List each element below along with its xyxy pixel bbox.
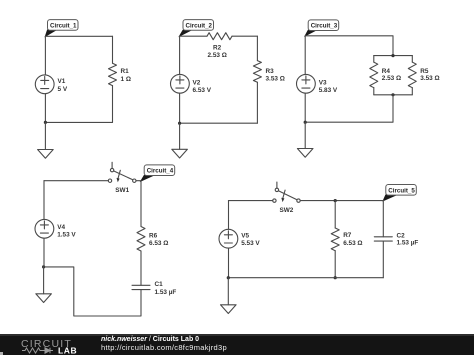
svg-text:SW2: SW2 [280, 207, 294, 214]
svg-text:5.83 V: 5.83 V [319, 87, 338, 94]
svg-text:nick.nweisser / Circuits Lab 0: nick.nweisser / Circuits Lab 0 [101, 336, 199, 343]
node label Circuit_4 [141, 165, 175, 181]
svg-text:3.53 Ω: 3.53 Ω [266, 76, 285, 83]
node label Circuit_3 [305, 20, 339, 36]
wire right upper C1 [112, 36, 114, 63]
svg-text:C2: C2 [397, 233, 406, 240]
junction R7 bottom [334, 276, 337, 279]
wire R7 bottom stub [334, 251, 336, 278]
wire top-left C5 [229, 200, 273, 202]
logo resistor squiggle [22, 348, 42, 353]
svg-text:1 Ω: 1 Ω [121, 76, 131, 83]
wire left upper C1 [44, 36, 46, 75]
svg-text:6.53 Ω: 6.53 Ω [149, 240, 168, 247]
svg-text:5 V: 5 V [58, 86, 68, 93]
node label Circuit_1 [45, 20, 78, 37]
wire parallel bottom bar [374, 94, 413, 96]
svg-text:2.53 Ω: 2.53 Ω [208, 52, 227, 59]
capacitor C2 [374, 233, 418, 247]
svg-text:1.53 V: 1.53 V [57, 232, 76, 239]
wire left lower C1 [44, 94, 46, 123]
svg-text:1.53 µF: 1.53 µF [155, 289, 177, 296]
wire right upper C2 [256, 36, 258, 60]
wire R6 to C1 [140, 251, 142, 285]
svg-text:R4: R4 [382, 68, 391, 75]
svg-text:3.53 Ω: 3.53 Ω [420, 75, 439, 82]
svg-text:Circuit_4: Circuit_4 [147, 168, 174, 175]
wire top C3 [305, 36, 393, 56]
svg-text:V4: V4 [57, 224, 65, 231]
wire bottom C2 [180, 122, 258, 124]
switch SW1 [108, 162, 136, 194]
wire left upper C2 [179, 36, 181, 74]
junction R7 top [334, 199, 337, 202]
ground C2 [172, 149, 188, 158]
wire R7 top stub [334, 201, 336, 228]
wire right lower C1 [112, 86, 114, 123]
svg-text:R1: R1 [121, 68, 130, 75]
wire ground stem C4 [43, 267, 45, 294]
wire top-right C4 [136, 180, 141, 182]
svg-text:http://circuitlab.com/c8fc9mak: http://circuitlab.com/c8fc9makjrd3p [101, 343, 227, 352]
junction parallel bottom [391, 93, 394, 96]
logo diode [42, 348, 53, 353]
wire left upper C4 [43, 181, 45, 220]
resistor R7 [331, 228, 362, 251]
svg-text:R5: R5 [420, 68, 429, 75]
wire right upper C5 [382, 201, 384, 237]
wire top-left C4 [44, 180, 108, 182]
wire right lower C2 [256, 82, 258, 123]
wire left lower C3 [304, 93, 306, 122]
wire R4 top stub [373, 56, 375, 63]
wire left lower C5 [228, 248, 230, 278]
wire ground stem C2 [179, 123, 181, 149]
resistor R4 [370, 62, 401, 88]
wire top-right C5 [300, 200, 383, 202]
wire ground stem C1 [44, 122, 46, 149]
svg-text:V1: V1 [58, 78, 66, 85]
wire top-right C2 [232, 35, 257, 37]
wire left lower C4 [43, 238, 45, 267]
wire center lower C3 [305, 95, 393, 122]
svg-text:Circuit_3: Circuit_3 [311, 23, 338, 30]
svg-text:Circuit_1: Circuit_1 [50, 22, 77, 29]
junction C1 [44, 121, 47, 124]
ground C4 [36, 294, 52, 303]
svg-text:6.53 Ω: 6.53 Ω [343, 240, 362, 247]
svg-text:LAB: LAB [58, 346, 77, 355]
svg-text:V3: V3 [319, 80, 327, 87]
junction C3 [304, 121, 307, 124]
wire right lower C5 [382, 241, 384, 278]
svg-text:V2: V2 [193, 80, 201, 87]
wire parallel top bar [374, 55, 413, 57]
wire R4 bottom stub [373, 88, 375, 95]
svg-text:5.53 V: 5.53 V [241, 240, 260, 247]
junction C4 [42, 265, 45, 268]
svg-text:SW1: SW1 [115, 187, 129, 194]
svg-text:R2: R2 [213, 44, 222, 51]
resistor R6 [137, 227, 168, 252]
svg-text:1.53 µF: 1.53 µF [397, 240, 419, 247]
voltage source V1 [35, 75, 68, 94]
ground C3 [297, 149, 313, 158]
wire left lower C2 [179, 93, 181, 123]
ground C5 [221, 305, 237, 314]
wire ground stem C5 [227, 278, 229, 305]
voltage source V5 [219, 229, 260, 248]
junction parallel top [391, 54, 394, 57]
ground C1 [38, 150, 54, 159]
svg-text:Circuit_2: Circuit_2 [186, 22, 213, 29]
svg-text:6.53 V: 6.53 V [193, 87, 212, 94]
voltage source V2 [171, 74, 212, 94]
svg-text:2.53 Ω: 2.53 Ω [382, 75, 401, 82]
wire bottom C5 [228, 277, 383, 279]
svg-text:R6: R6 [149, 233, 158, 240]
junction C5 [227, 276, 230, 279]
switch SW2 [273, 182, 301, 214]
resistor R3 [253, 61, 284, 83]
wire top C1 [45, 35, 112, 37]
node label Circuit_2 [180, 20, 214, 36]
svg-text:V5: V5 [241, 233, 249, 240]
voltage source V3 [297, 74, 338, 94]
wire top-left C2 [180, 35, 207, 37]
wire C1 bottom path [44, 267, 141, 316]
wire R5 top stub [411, 56, 413, 63]
resistor R2 [207, 33, 232, 59]
node label Circuit_5 [383, 185, 416, 201]
junction C2 [178, 122, 181, 125]
wire right upper C4 [140, 181, 142, 227]
capacitor C1 [132, 281, 176, 296]
svg-text:R7: R7 [343, 232, 352, 239]
svg-text:R3: R3 [266, 68, 275, 75]
wire left upper C5 [228, 201, 230, 230]
voltage source V4 [35, 219, 76, 238]
wire left upper C3 [304, 36, 306, 75]
wire ground stem C3 [304, 122, 306, 148]
svg-text:Circuit_5: Circuit_5 [388, 187, 415, 194]
resistor R1 [109, 63, 131, 85]
wire R5 bottom stub [411, 88, 413, 95]
resistor R5 [408, 62, 439, 88]
wire bottom C1 [45, 121, 112, 123]
svg-text:C1: C1 [155, 281, 164, 288]
